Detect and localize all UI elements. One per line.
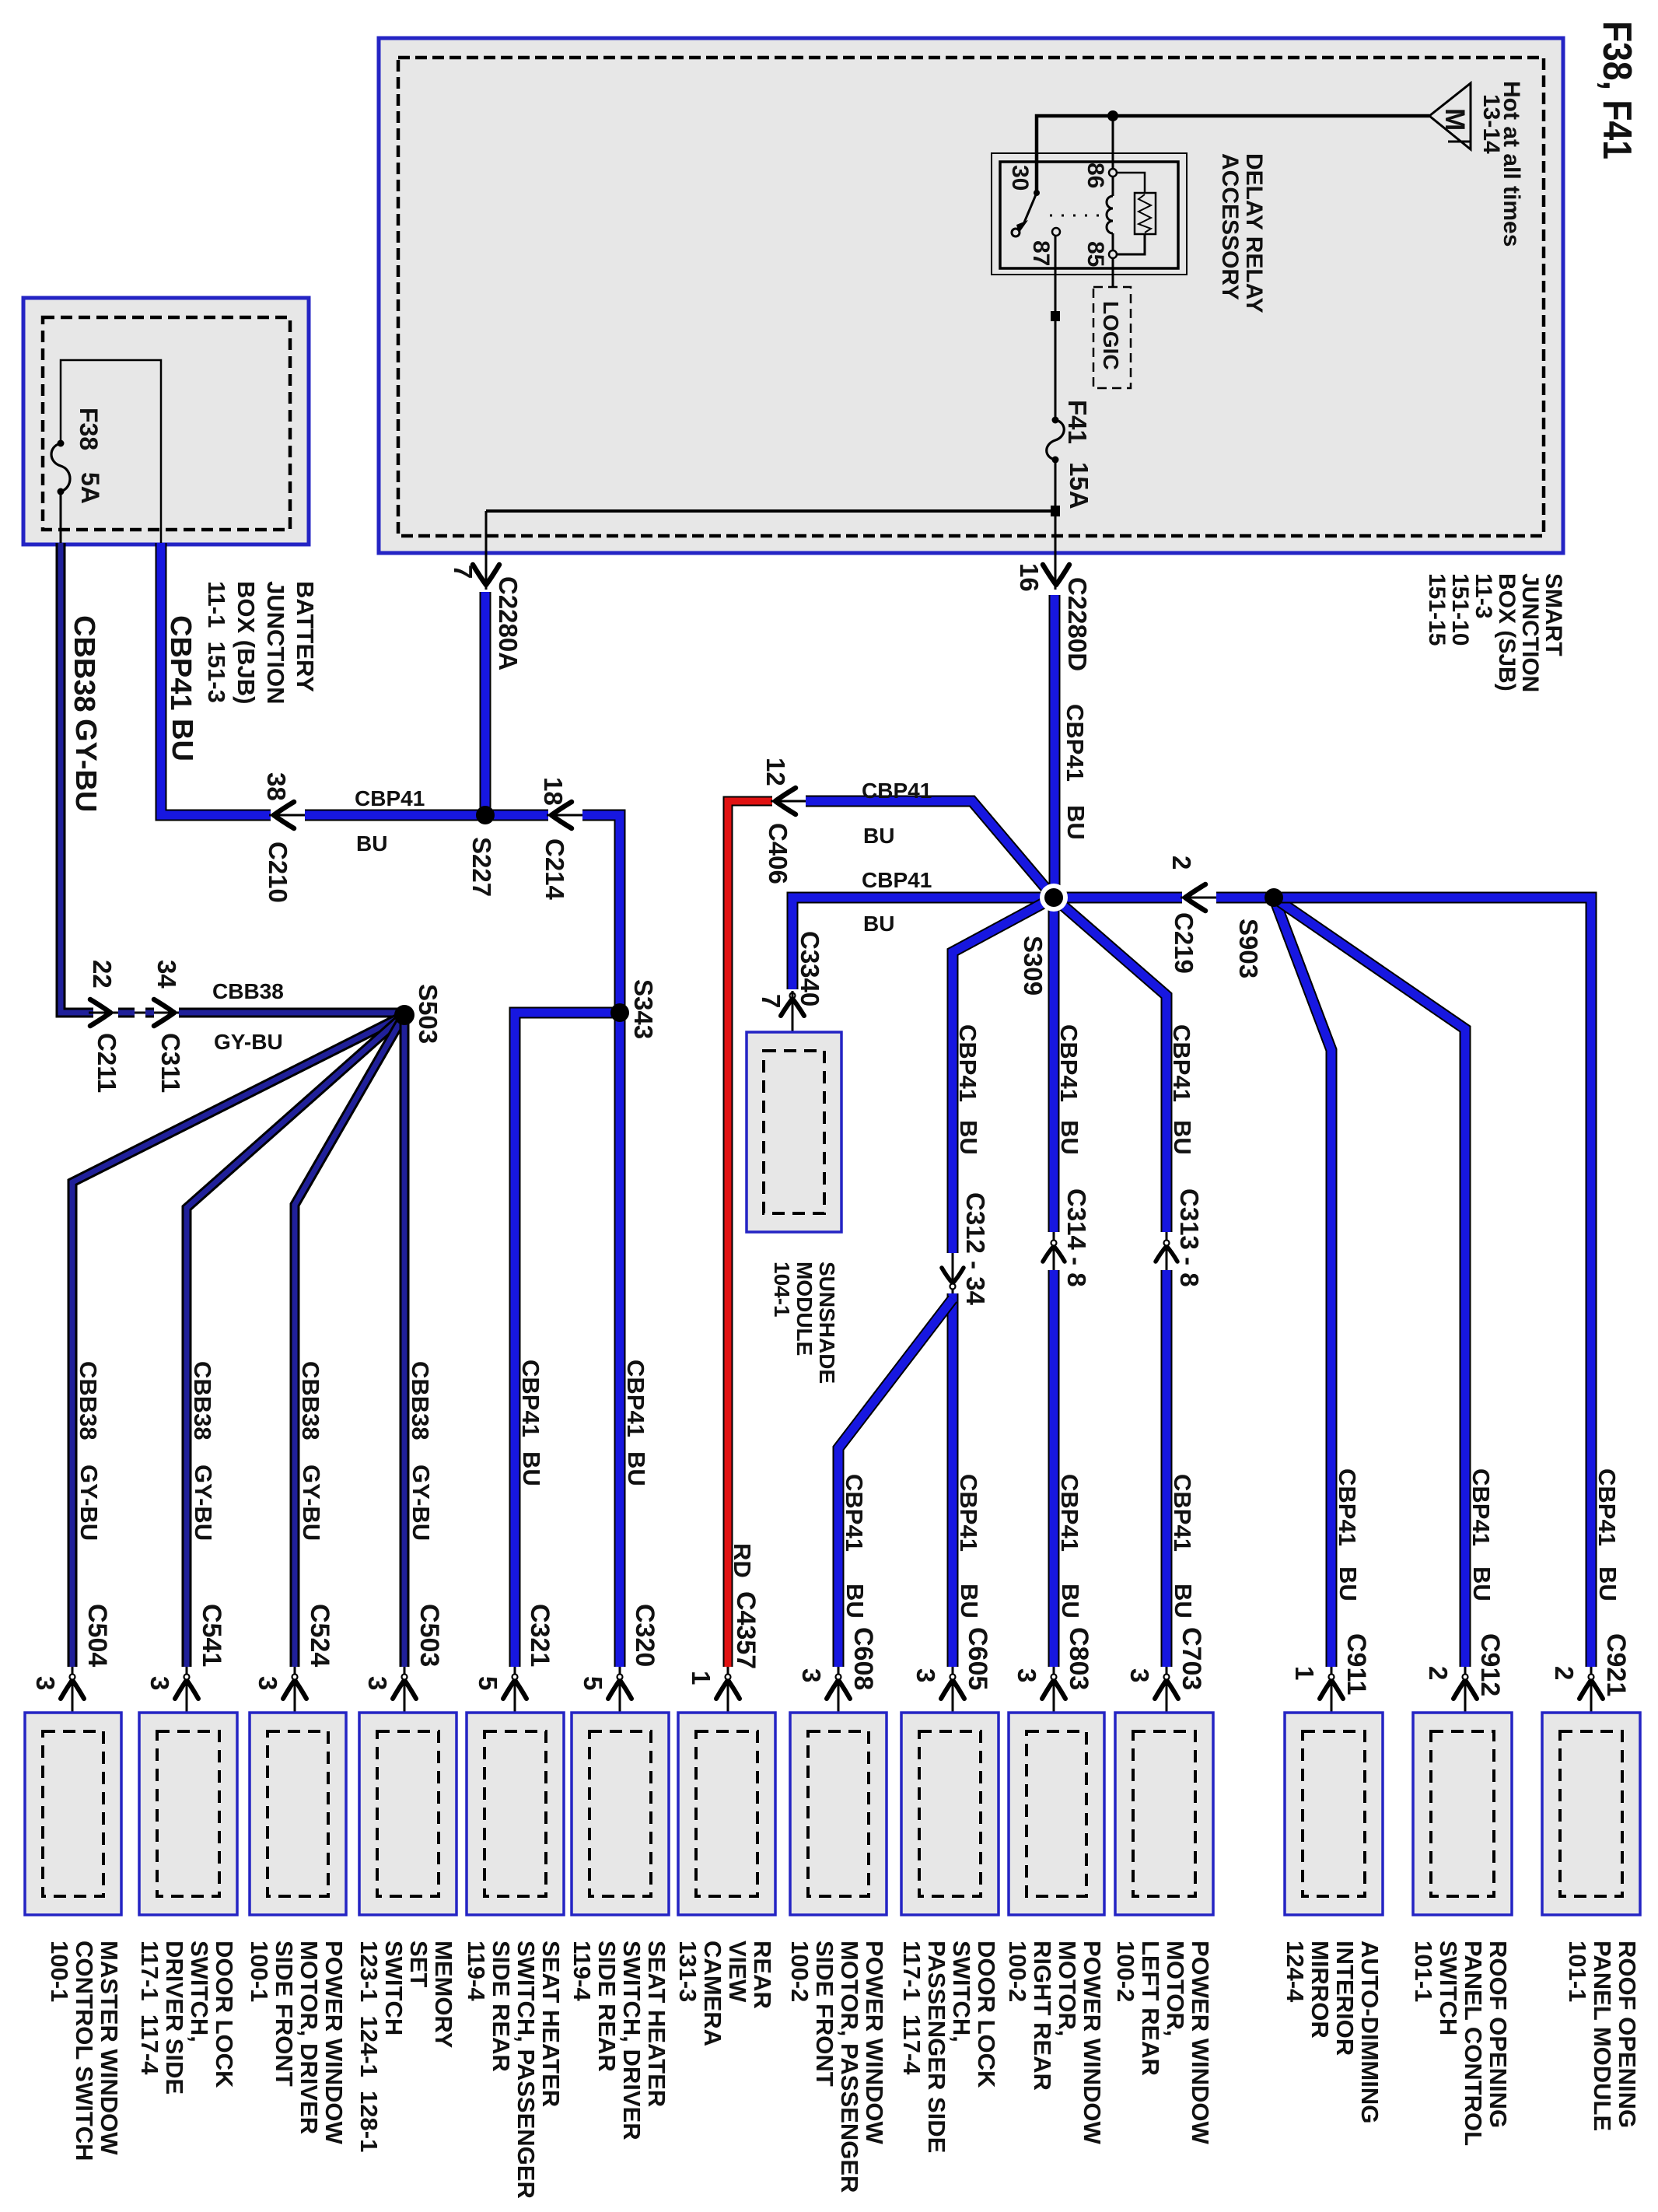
svg-text:CBP41: CBP41 (862, 779, 932, 803)
svg-text:CBP41: CBP41 (841, 1474, 868, 1552)
relay pin 85 contact (1109, 250, 1117, 258)
connector C314 arrow (1043, 1241, 1065, 1262)
svg-text:7: 7 (449, 565, 477, 579)
svg-text:38: 38 (262, 772, 291, 801)
wire to C2280D exit (1055, 515, 1057, 590)
svg-text:SWITCH: SWITCH (1435, 1941, 1462, 2035)
svg-text:7: 7 (757, 994, 785, 1008)
connector C219 arrow (1185, 884, 1205, 911)
smart junction box (SJB) outline (379, 38, 1563, 553)
svg-text:BU: BU (841, 1584, 869, 1619)
svg-text:M: M (1439, 108, 1470, 131)
svg-text:S343: S343 (629, 979, 658, 1039)
relay pin 86 contact (1109, 169, 1117, 177)
wire CBP41 to C703 (1161, 1270, 1173, 1667)
wire through C219 (1181, 897, 1219, 899)
wire CBP41 to C912 (1274, 898, 1465, 1667)
wire RD to C4357 (728, 801, 772, 1667)
svg-text:CBP41: CBP41 (862, 868, 932, 892)
connector C312 arrow (942, 1268, 964, 1290)
connector arrow at x=1078 (827, 1675, 850, 1699)
wire to C2280A exit (485, 511, 488, 590)
splice S343 (610, 1003, 629, 1022)
wire stub into box at x=1500 (1166, 1667, 1168, 1731)
component box C504 (25, 1713, 121, 1915)
wire through C314 (1053, 1232, 1055, 1270)
connector arrow at x=936 (716, 1675, 740, 1699)
svg-text:BU: BU (1169, 1120, 1196, 1155)
wire stub into box at x=1712 (1331, 1667, 1333, 1731)
svg-text:C314 - 8: C314 - 8 (1062, 1188, 1091, 1287)
svg-text:BOX (BJB): BOX (BJB) (233, 581, 260, 704)
svg-text:CBP41: CBP41 (954, 1024, 981, 1102)
component box C4357 (678, 1713, 775, 1915)
svg-text:3: 3 (254, 1676, 282, 1690)
svg-text:CBP41: CBP41 (1334, 1468, 1361, 1546)
wire stub into box at x=662 (514, 1667, 516, 1731)
svg-text:PASSENGER SIDE: PASSENGER SIDE (923, 1941, 950, 2153)
wire through C214 (547, 814, 586, 817)
svg-text:18: 18 (539, 777, 568, 806)
svg-text:1: 1 (1290, 1666, 1319, 1680)
svg-text:BU: BU (1062, 805, 1090, 840)
wire CBP41 to C921 (1274, 898, 1591, 1667)
wire CBP41 to C314 (1048, 898, 1060, 1232)
svg-text:PANEL CONTROL: PANEL CONTROL (1460, 1941, 1487, 2146)
power feed triangle M (1429, 83, 1471, 149)
svg-text:S309: S309 (1019, 936, 1048, 996)
svg-text:5: 5 (474, 1676, 502, 1690)
wire CBP41 to C608 (838, 1299, 953, 1667)
connector C2280D arrow (1043, 565, 1069, 585)
component box C608 (790, 1713, 887, 1915)
svg-text:C524: C524 (305, 1604, 334, 1667)
svg-text:JUNCTION: JUNCTION (1517, 573, 1543, 692)
connector C214 arrow (551, 802, 572, 828)
splice S503 (394, 1005, 414, 1025)
wire stub into box at x=93 (72, 1667, 74, 1731)
wire CBP41 to C803 (1048, 1270, 1060, 1667)
connector arrow at x=520 (393, 1675, 416, 1699)
svg-text:SEAT HEATER: SEAT HEATER (537, 1941, 565, 2107)
relay box ACCESSORY DELAY RELAY (992, 153, 1187, 275)
svg-text:3: 3 (363, 1676, 392, 1690)
splice S227 (476, 806, 495, 824)
svg-text:131-3: 131-3 (674, 1941, 701, 2002)
wire stub into box at x=240 (186, 1667, 188, 1731)
wire CBP41 BU to C406 (806, 801, 1054, 898)
svg-text:CBB38: CBB38 (75, 1361, 102, 1440)
wire CBP41 BU to S343 (582, 815, 620, 1667)
svg-text:C921: C921 (1601, 1633, 1631, 1696)
fuse F41 (1047, 417, 1065, 464)
wire CBP41 BU to sunshade (792, 898, 1054, 989)
wire CBP41 to C321 (515, 1013, 620, 1667)
relay coil (1107, 177, 1113, 250)
wire stub into box at x=520 (404, 1667, 406, 1731)
svg-text:POWER WINDOW: POWER WINDOW (1079, 1941, 1106, 2144)
svg-text:MOTOR, DRIVER: MOTOR, DRIVER (296, 1941, 323, 2134)
svg-text:BU: BU (1334, 1566, 1362, 1601)
component box C320 (572, 1713, 669, 1915)
wire CBP41 to C605 (947, 1293, 959, 1667)
svg-text:MIRROR: MIRROR (1306, 1941, 1334, 2039)
connector arrow at x=1225 (941, 1675, 964, 1699)
svg-text:123-1 124-1 128-1: 123-1 124-1 128-1 (355, 1941, 383, 2152)
svg-text:119-4: 119-4 (463, 1941, 490, 2001)
svg-text:SWITCH,: SWITCH, (948, 1941, 975, 2042)
svg-text:C219: C219 (1170, 912, 1198, 974)
svg-text:101-1: 101-1 (1564, 1941, 1591, 2002)
wire into sunshade module (792, 991, 794, 1051)
svg-text:RD: RD (729, 1543, 756, 1578)
svg-text:86: 86 (1083, 163, 1108, 188)
svg-text:BOX (SJB): BOX (SJB) (1494, 573, 1520, 691)
svg-text:POWER WINDOW: POWER WINDOW (861, 1941, 888, 2144)
svg-text:124-4: 124-4 (1282, 1941, 1309, 2003)
wire stub into box at x=797 (619, 1667, 621, 1731)
svg-text:SIDE REAR: SIDE REAR (593, 1941, 621, 2072)
LOGIC box (1093, 287, 1131, 388)
wire through C313 (1166, 1232, 1168, 1270)
component box C911 (1285, 1713, 1383, 1915)
svg-text:100-1: 100-1 (246, 1941, 273, 2002)
svg-text:C311: C311 (156, 1033, 185, 1093)
wire fuse to junction (1055, 461, 1057, 506)
junction node feed/coil (1107, 110, 1118, 121)
svg-text:CONTROL SWITCH: CONTROL SWITCH (71, 1941, 98, 2161)
connector C406 arrow (775, 788, 796, 814)
svg-text:MODULE: MODULE (792, 1262, 817, 1356)
svg-text:GY-BU: GY-BU (75, 1465, 103, 1541)
connector arrow at x=797 (608, 1675, 631, 1699)
svg-text:BU: BU (956, 1584, 983, 1619)
svg-text:MOTOR, PASSENGER: MOTOR, PASSENGER (836, 1941, 863, 2193)
svg-text:C4357: C4357 (731, 1591, 761, 1669)
svg-text:C406: C406 (764, 823, 792, 884)
svg-text:11-3: 11-3 (1471, 573, 1496, 618)
svg-text:C703: C703 (1177, 1627, 1206, 1690)
svg-text:CBP41: CBP41 (1593, 1468, 1621, 1546)
svg-text:C3340: C3340 (796, 931, 824, 1006)
relay dotted actuation link (1050, 215, 1104, 217)
svg-text:C608: C608 (848, 1627, 878, 1690)
svg-text:100-1: 100-1 (46, 1941, 73, 2002)
wire stub into box at x=936 (727, 1667, 729, 1731)
svg-text:SMART: SMART (1541, 573, 1566, 656)
svg-text:C210: C210 (264, 842, 292, 903)
connector arrow at x=1712 (1320, 1675, 1343, 1699)
svg-text:BU: BU (863, 824, 894, 848)
svg-text:CBP41: CBP41 (517, 1360, 544, 1437)
svg-text:BU: BU (955, 1120, 982, 1155)
relay switch arm pin 30 (1012, 190, 1040, 236)
svg-text:BU: BU (1170, 1584, 1197, 1619)
svg-text:CBP41: CBP41 (1062, 704, 1089, 782)
wire SJB internal bus (486, 509, 1052, 513)
svg-text:13-14: 13-14 (1478, 94, 1504, 154)
wire pin85 to logic (1112, 258, 1114, 287)
wire stub into box at x=1355 (1053, 1667, 1055, 1731)
svg-text:BATTERY: BATTERY (292, 581, 319, 692)
svg-text:CBP41: CBP41 (955, 1474, 982, 1552)
svg-text:DOOR LOCK: DOOR LOCK (973, 1941, 1000, 2088)
svg-text:SIDE FRONT: SIDE FRONT (811, 1941, 838, 2087)
wire CBB38 GY-BU to S503 (179, 1008, 401, 1018)
wire CBP41 to C312 (953, 898, 1054, 1253)
svg-text:15A: 15A (1065, 462, 1093, 509)
connector arrow at x=662 (503, 1675, 526, 1699)
svg-text:C803: C803 (1064, 1627, 1093, 1690)
svg-text:BU: BU (1056, 1120, 1083, 1155)
svg-text:101-1: 101-1 (1410, 1941, 1437, 2002)
svg-text:C504: C504 (82, 1604, 112, 1667)
connector arrow at x=2046 (1579, 1675, 1603, 1699)
svg-text:S903: S903 (1234, 919, 1263, 978)
connector arrow at x=93 (61, 1675, 84, 1699)
relay pin 87 contact (1052, 228, 1060, 236)
svg-text:BU: BU (518, 1451, 545, 1486)
svg-text:DRIVER SIDE: DRIVER SIDE (161, 1941, 188, 2095)
wire CBB38 to C504 (72, 1015, 404, 1667)
wire through C211-C311 (89, 1012, 182, 1014)
wire CBP41 BU C2280A drop (480, 592, 491, 815)
wire stub into box at x=2046 (1590, 1667, 1593, 1731)
svg-text:16: 16 (1015, 563, 1044, 592)
svg-text:87: 87 (1028, 240, 1054, 266)
svg-text:BU: BU (356, 831, 387, 856)
svg-text:CBP41: CBP41 (164, 615, 197, 711)
svg-text:S503: S503 (414, 984, 442, 1044)
wire CBP41 to C219 (1054, 892, 1182, 904)
svg-text:GY-BU: GY-BU (69, 719, 102, 812)
svg-text:BU: BU (1057, 1584, 1084, 1619)
svg-text:CAMERA: CAMERA (699, 1941, 726, 2046)
svg-text:C214: C214 (540, 838, 569, 901)
svg-text:CBP41: CBP41 (1055, 1024, 1083, 1102)
wire CBP41 BU to S227 (305, 810, 548, 821)
wire stub into box at x=1884 (1464, 1667, 1467, 1731)
svg-text:CBB38: CBB38 (297, 1361, 324, 1440)
svg-text:2: 2 (1424, 1666, 1453, 1680)
wire through C312 (952, 1253, 954, 1293)
svg-text:GY-BU: GY-BU (408, 1465, 435, 1541)
wire CBP41 to C320 (614, 1013, 626, 1667)
svg-text:3: 3 (1013, 1668, 1041, 1682)
wire CBB38 GY-BU from BJB (61, 543, 93, 1013)
wire CBP41 BU C2280D drop (1049, 595, 1061, 898)
svg-text:SWITCH: SWITCH (380, 1941, 408, 2035)
svg-text:100-2: 100-2 (1112, 1941, 1139, 2002)
svg-text:REAR: REAR (749, 1941, 776, 2009)
svg-text:2: 2 (1550, 1666, 1579, 1680)
svg-text:CBP41: CBP41 (1168, 1024, 1195, 1102)
wire feed to pin 86 (1112, 116, 1114, 169)
svg-text:MASTER WINDOW: MASTER WINDOW (96, 1941, 123, 2155)
svg-text:3: 3 (911, 1668, 940, 1682)
connector C311 arrow (154, 999, 174, 1026)
svg-text:C321: C321 (525, 1604, 554, 1667)
svg-text:CBB38: CBB38 (212, 979, 284, 1003)
wire through C406 (771, 800, 809, 803)
svg-text:3: 3 (31, 1676, 60, 1690)
svg-text:CBB38: CBB38 (68, 615, 100, 712)
svg-text:11-1 151-3: 11-1 151-3 (203, 581, 230, 703)
svg-text:DELAY RELAY: DELAY RELAY (1241, 153, 1267, 313)
svg-text:MOTOR,: MOTOR, (1162, 1941, 1189, 2036)
sunshade module box (747, 1032, 841, 1232)
fuse F38 cell (61, 360, 161, 554)
svg-text:5A: 5A (76, 472, 104, 504)
svg-text:CBP41: CBP41 (622, 1360, 649, 1437)
svg-text:RIGHT REAR: RIGHT REAR (1029, 1941, 1056, 2091)
svg-text:SEAT HEATER: SEAT HEATER (643, 1941, 670, 2107)
svg-text:5: 5 (579, 1676, 607, 1690)
wire through C210 (269, 814, 308, 817)
wire hot feed (1037, 116, 1429, 191)
svg-text:SIDE FRONT: SIDE FRONT (271, 1941, 298, 2087)
wire CBP41 BU from BJB (161, 543, 271, 815)
wire stub into box at x=1078 (838, 1667, 840, 1731)
component box C703 (1115, 1713, 1213, 1915)
svg-text:BU: BU (863, 912, 894, 936)
battery junction box (BJB) outline (23, 298, 309, 544)
svg-text:CBB38: CBB38 (189, 1361, 216, 1440)
wire CBP41 to S903 (1216, 892, 1274, 904)
svg-text:S227: S227 (467, 837, 496, 897)
svg-text:SUNSHADE: SUNSHADE (815, 1262, 839, 1384)
svg-text:C312 - 34: C312 - 34 (961, 1192, 990, 1306)
svg-text:100-2: 100-2 (1004, 1941, 1031, 2002)
component box C803 (1009, 1713, 1104, 1915)
svg-text:F38: F38 (75, 408, 103, 450)
connector arrow at x=1500 (1155, 1675, 1178, 1699)
svg-text:GY-BU: GY-BU (298, 1465, 325, 1541)
svg-text:C605: C605 (963, 1627, 992, 1690)
svg-text:C211: C211 (93, 1033, 121, 1093)
svg-text:C2280A: C2280A (494, 576, 523, 670)
svg-text:C2280D: C2280D (1063, 577, 1092, 671)
svg-text:ROOF OPENING: ROOF OPENING (1614, 1941, 1641, 2128)
svg-text:ROOF OPENING: ROOF OPENING (1485, 1941, 1512, 2128)
svg-text:C503: C503 (414, 1604, 444, 1667)
svg-text:ACCESSORY: ACCESSORY (1217, 153, 1243, 300)
wire CBB38 to C503 (400, 1015, 410, 1667)
component box C503 (359, 1713, 456, 1915)
svg-text:104-1: 104-1 (770, 1262, 794, 1318)
component box C921 (1542, 1713, 1640, 1915)
connector C313 arrow (1156, 1241, 1177, 1262)
svg-text:GY-BU: GY-BU (190, 1465, 217, 1541)
wire stub into box at x=1225 (952, 1667, 954, 1731)
svg-text:F41: F41 (1063, 400, 1092, 444)
svg-text:151-10: 151-10 (1447, 573, 1473, 646)
connector arrow at x=240 (175, 1675, 198, 1699)
connector arrow at x=379 (283, 1675, 306, 1699)
svg-text:CBP41: CBP41 (1169, 1474, 1196, 1552)
svg-text:119-4: 119-4 (568, 1941, 596, 2001)
svg-text:PANEL MODULE: PANEL MODULE (1589, 1941, 1616, 2131)
svg-text:INTERIOR: INTERIOR (1331, 1941, 1359, 2056)
splice S309 (1040, 884, 1068, 912)
svg-text:100-2: 100-2 (786, 1941, 813, 2002)
connector C210 arrow (274, 802, 294, 828)
svg-text:POWER WINDOW: POWER WINDOW (320, 1941, 348, 2144)
svg-text:SWITCH,: SWITCH, (186, 1941, 213, 2042)
svg-text:3: 3 (797, 1668, 826, 1682)
svg-text:117-1 117-4: 117-1 117-4 (136, 1941, 163, 2075)
svg-text:BU: BU (166, 719, 198, 761)
svg-text:DOOR LOCK: DOOR LOCK (211, 1941, 238, 2088)
connector C3340 arrow (781, 993, 804, 1017)
svg-text:VIEW: VIEW (724, 1941, 751, 2003)
svg-text:SIDE REAR: SIDE REAR (488, 1941, 515, 2072)
wire CBB38 to C524 (295, 1015, 404, 1667)
svg-text:2: 2 (1167, 856, 1196, 870)
svg-text:151-15: 151-15 (1424, 573, 1450, 646)
svg-text:C320: C320 (630, 1604, 659, 1667)
wire stub into box at x=379 (294, 1667, 296, 1731)
wire CBB38 dashed section (118, 1008, 154, 1018)
svg-text:BU: BU (1594, 1566, 1621, 1601)
svg-text:JUNCTION: JUNCTION (262, 581, 289, 704)
svg-text:BU: BU (623, 1451, 650, 1486)
wire CBB38 to C541 (187, 1015, 404, 1667)
connector arrow at x=1884 (1453, 1675, 1477, 1699)
svg-text:22: 22 (88, 960, 117, 989)
connector C2280A arrow (473, 565, 499, 585)
svg-text:CBP41: CBP41 (1467, 1468, 1495, 1546)
component box C912 (1413, 1713, 1512, 1915)
wire CBP41 to C911 (1274, 898, 1331, 1667)
svg-text:117-1 117-4: 117-1 117-4 (898, 1941, 925, 2075)
connector arrow at x=1355 (1042, 1675, 1065, 1699)
wire CBP41 to C313 (1054, 898, 1167, 1232)
relay suppression resistor (1117, 173, 1156, 254)
splice S903 (1264, 888, 1283, 907)
svg-text:12: 12 (761, 758, 790, 786)
svg-text:3: 3 (1125, 1668, 1154, 1682)
inline connector square (1051, 311, 1060, 321)
svg-text:30: 30 (1007, 165, 1033, 191)
junction square F41 output (1051, 506, 1060, 516)
svg-text:MEMORY: MEMORY (430, 1941, 457, 2049)
component box C321 (467, 1713, 564, 1915)
svg-text:CBP41: CBP41 (1056, 1474, 1083, 1552)
svg-text:C912: C912 (1475, 1633, 1505, 1696)
svg-text:LEFT REAR: LEFT REAR (1137, 1941, 1164, 2076)
svg-text:AUTO-DIMMING: AUTO-DIMMING (1356, 1941, 1383, 2123)
svg-text:1: 1 (687, 1671, 715, 1685)
svg-text:LOGIC: LOGIC (1099, 301, 1123, 370)
svg-text:BU: BU (1468, 1566, 1495, 1601)
svg-text:C911: C911 (1341, 1633, 1371, 1695)
svg-text:C313 - 8: C313 - 8 (1175, 1188, 1204, 1287)
svg-text:SWITCH, PASSENGER: SWITCH, PASSENGER (512, 1941, 540, 2199)
component box C541 (139, 1713, 237, 1915)
svg-text:SET: SET (405, 1941, 432, 1987)
svg-text:85: 85 (1083, 241, 1108, 267)
svg-text:GY-BU: GY-BU (214, 1030, 283, 1054)
fuse F38 (51, 440, 70, 495)
svg-text:C541: C541 (197, 1604, 226, 1667)
component box C524 (250, 1713, 346, 1915)
svg-text:3: 3 (145, 1676, 174, 1690)
svg-text:F38, F41: F38, F41 (1594, 21, 1639, 159)
svg-text:MOTOR,: MOTOR, (1054, 1941, 1081, 2036)
svg-text:CBP41: CBP41 (355, 786, 425, 810)
svg-text:SWITCH, DRIVER: SWITCH, DRIVER (618, 1941, 645, 2140)
